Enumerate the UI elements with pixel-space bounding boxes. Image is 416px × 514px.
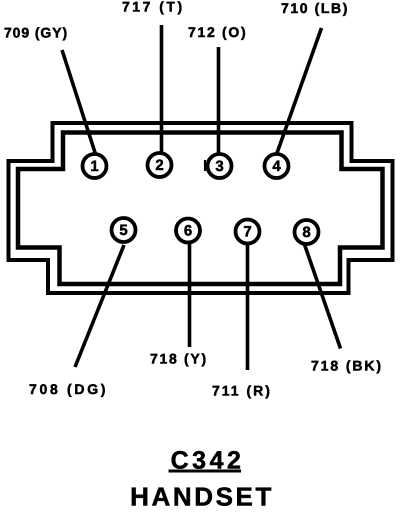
svg-text:8: 8 (302, 224, 310, 241)
svg-text:710 (LB): 710 (LB) (281, 0, 349, 16)
svg-text:2: 2 (155, 157, 163, 174)
wire 710 (LB) to pin 4 (277, 28, 322, 153)
pin 1 (83, 154, 107, 178)
wire 712 (O) to pin 3 (217, 47, 221, 154)
wire 709 (GY) to pin 1 (62, 50, 96, 154)
pin 3 left edge mark (204, 160, 206, 171)
svg-text:711 (R): 711 (R) (212, 383, 272, 399)
pin 6 (176, 219, 200, 243)
pin 7 (236, 220, 260, 244)
wire 708 (DG) to pin 5 (75, 245, 124, 367)
svg-text:1: 1 (90, 158, 98, 175)
svg-text:4: 4 (272, 158, 281, 175)
svg-text:HANDSET: HANDSET (130, 482, 274, 512)
svg-text:5: 5 (119, 222, 127, 239)
underline under C342 (169, 470, 242, 473)
pin 4 (265, 154, 289, 178)
svg-text:712 (O): 712 (O) (188, 24, 247, 40)
svg-text:3: 3 (215, 158, 223, 175)
svg-text:718 (Y): 718 (Y) (150, 351, 208, 367)
pin 2 (148, 153, 172, 177)
svg-text:7: 7 (243, 224, 251, 241)
wire 718 (BK) to pin 8 (304, 243, 341, 349)
wire 711 (R) to pin 7 (246, 244, 250, 370)
svg-text:708 (DG): 708 (DG) (29, 381, 108, 397)
wire 717 (T) to pin 2 (160, 25, 164, 153)
connector C342 inner shell (18, 133, 383, 285)
pin 3 (208, 154, 232, 178)
pin 5 (112, 218, 136, 242)
pin 8 (295, 220, 319, 244)
svg-text:717 (T): 717 (T) (122, 0, 185, 15)
svg-text:709 (GY): 709 (GY) (4, 25, 68, 41)
svg-text:6: 6 (184, 223, 192, 240)
wire 718 (Y) to pin 6 (188, 243, 192, 347)
connector C342 outer shell (9, 123, 393, 293)
svg-text:718 (BK): 718 (BK) (311, 358, 383, 374)
